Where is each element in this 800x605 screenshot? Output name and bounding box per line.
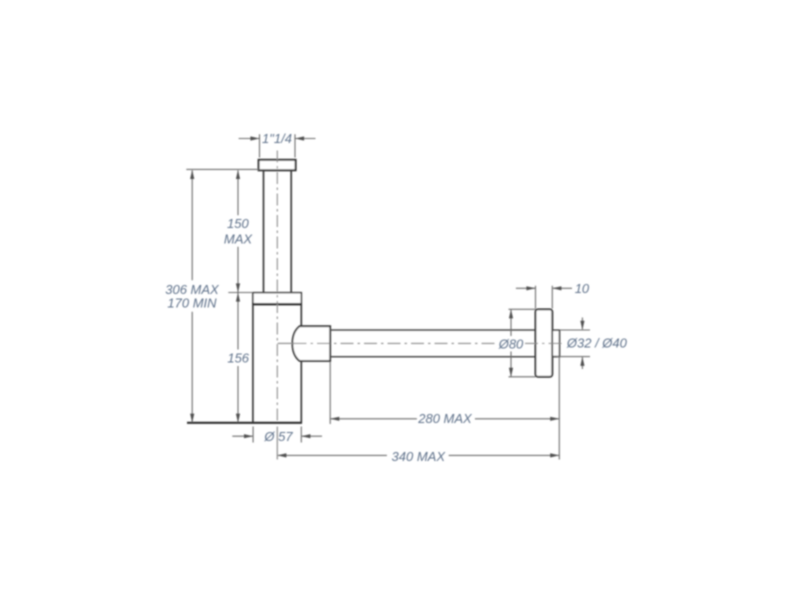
extension lines diameter 80 bbox=[509, 309, 536, 377]
wall stub bbox=[552, 330, 559, 356]
dimension arrows diameter 32/40 bbox=[581, 318, 583, 370]
svg-text:Ø80: Ø80 bbox=[498, 337, 524, 352]
horizontal centerline bbox=[294, 342, 565, 344]
svg-text:170 MIN: 170 MIN bbox=[167, 296, 217, 311]
tailpiece cap nut bbox=[259, 160, 296, 171]
svg-text:340 MAX: 340 MAX bbox=[392, 449, 447, 464]
body flange bottom heavy line bbox=[252, 303, 302, 305]
svg-text:150: 150 bbox=[227, 216, 249, 231]
dimension arrows diameter 57 bbox=[232, 435, 322, 437]
extension line wall face bbox=[558, 358, 560, 460]
horizontal centerline solid start bbox=[278, 342, 294, 344]
body flange bbox=[253, 293, 301, 304]
vertical centerline bbox=[276, 151, 278, 423]
svg-text:280 MAX: 280 MAX bbox=[417, 411, 473, 426]
svg-text:156: 156 bbox=[227, 350, 249, 365]
svg-text:1"1/4: 1"1/4 bbox=[262, 131, 292, 146]
dimension line diameter 80 bbox=[510, 310, 512, 377]
wall flange bbox=[536, 309, 553, 377]
dimension line 280 MAX bbox=[331, 418, 559, 420]
dimension line 156 bbox=[237, 293, 239, 423]
dimension arrows 1"1/4 bbox=[239, 138, 316, 140]
centerline extension below body bbox=[276, 427, 278, 460]
svg-text:MAX: MAX bbox=[224, 231, 254, 246]
extension line flange top bbox=[228, 292, 253, 294]
extension lines dimension 10 bbox=[536, 286, 553, 309]
dimension line 340 MAX bbox=[278, 454, 559, 456]
extension line: sink level top left bbox=[186, 168, 259, 170]
extension line below elbow nut bbox=[329, 362, 331, 424]
body bottom heavy line with left extension bbox=[187, 422, 302, 424]
svg-text:10: 10 bbox=[575, 281, 590, 296]
dimension line 306 MAX / 170 MIN bbox=[191, 170, 193, 422]
extension lines diameter 57 bbox=[253, 427, 301, 443]
trap body bbox=[253, 304, 301, 423]
extension lines diameter 32/40 bbox=[557, 330, 590, 357]
dimension arrows 10 with leader bbox=[516, 287, 572, 289]
elbow nut bbox=[292, 326, 330, 361]
outlet pipe bbox=[330, 330, 535, 357]
svg-text:Ø 57: Ø 57 bbox=[263, 429, 293, 444]
extension lines 1"1/4 bbox=[260, 134, 296, 157]
dimension line 150 MAX bbox=[237, 170, 239, 292]
inlet pipe bbox=[264, 170, 292, 292]
svg-text:Ø32 / Ø40: Ø32 / Ø40 bbox=[566, 335, 628, 350]
